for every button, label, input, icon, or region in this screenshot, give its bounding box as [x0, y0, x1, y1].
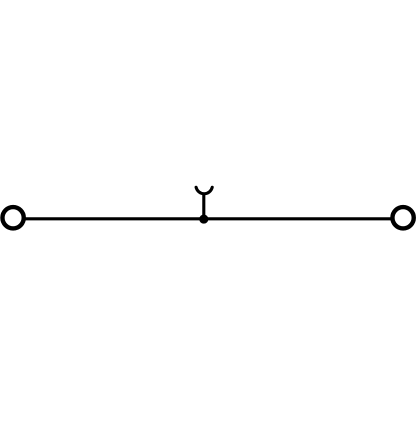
- wire (main conductor between terminals): [23, 217, 392, 220]
- terminal 2 (right clamp point, open circle): [392, 207, 413, 228]
- node A (junction dot on conductor): [199, 215, 208, 224]
- terminal 1 (left clamp point, open circle): [2, 207, 23, 228]
- test tap TP (open cup / fork contact symbol): [196, 187, 212, 193]
- wire (test-tap stem from node up to tap cup): [202, 193, 205, 220]
